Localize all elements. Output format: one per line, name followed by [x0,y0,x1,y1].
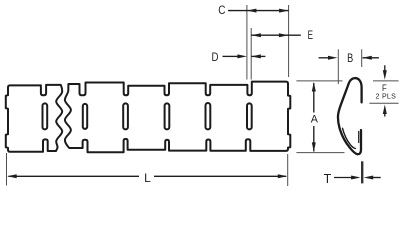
svg-text:B: B [347,51,353,65]
svg-text:D: D [212,50,219,64]
svg-text:A: A [311,113,319,125]
svg-text:L: L [144,172,151,185]
svg-text:F: F [382,83,387,93]
svg-text:E: E [308,28,313,42]
svg-text:C: C [218,3,225,17]
svg-text:T: T [324,171,332,186]
svg-text:2 PLS: 2 PLS [376,94,397,101]
